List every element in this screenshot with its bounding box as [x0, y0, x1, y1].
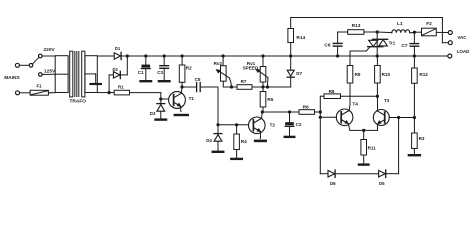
svg-text:R8: R8	[329, 89, 335, 94]
svg-text:F1: F1	[37, 84, 43, 89]
svg-text:C3: C3	[157, 70, 163, 75]
svg-text:R3: R3	[419, 136, 425, 141]
svg-text:T4: T4	[352, 102, 358, 107]
svg-text:C7: C7	[401, 43, 407, 49]
svg-text:LOAD: LOAD	[457, 49, 470, 54]
svg-text:VAC: VAC	[457, 35, 467, 40]
svg-text:125V: 125V	[44, 69, 56, 75]
svg-text:T1: T1	[189, 96, 195, 101]
svg-text:Rv2: Rv2	[214, 61, 223, 66]
svg-text:C2: C2	[296, 122, 302, 127]
svg-text:SPEED: SPEED	[243, 66, 259, 71]
svg-text:R1: R1	[118, 85, 124, 90]
svg-text:R9: R9	[355, 72, 361, 77]
svg-text:D7: D7	[296, 71, 302, 76]
svg-text:R7: R7	[241, 79, 247, 84]
svg-text:R12: R12	[419, 72, 428, 77]
svg-text:R13: R13	[352, 23, 361, 29]
svg-text:D1: D1	[115, 46, 121, 51]
svg-text:D4: D4	[206, 138, 212, 143]
svg-text:C5: C5	[195, 77, 201, 82]
svg-text:D3: D3	[150, 111, 156, 116]
svg-text:R14: R14	[296, 35, 305, 41]
svg-text:R5: R5	[267, 97, 273, 102]
svg-text:R2: R2	[186, 66, 192, 71]
svg-text:MAINS: MAINS	[4, 75, 20, 81]
svg-text:D5: D5	[379, 181, 385, 186]
svg-text:R6: R6	[303, 104, 309, 109]
svg-text:R4: R4	[241, 139, 247, 144]
svg-text:D6: D6	[330, 181, 336, 186]
svg-text:L1: L1	[397, 21, 403, 27]
svg-text:R10: R10	[382, 72, 391, 77]
svg-text:220V: 220V	[44, 47, 56, 53]
svg-text:R11: R11	[368, 145, 377, 150]
svg-text:D2: D2	[113, 67, 119, 72]
svg-text:TRAFO: TRAFO	[70, 99, 87, 105]
svg-text:T3: T3	[384, 98, 390, 103]
svg-text:F2: F2	[426, 21, 432, 27]
svg-text:C6: C6	[324, 42, 330, 48]
svg-text:C1: C1	[138, 70, 144, 75]
svg-text:Tr1: Tr1	[389, 40, 396, 45]
svg-text:T2: T2	[270, 123, 276, 128]
